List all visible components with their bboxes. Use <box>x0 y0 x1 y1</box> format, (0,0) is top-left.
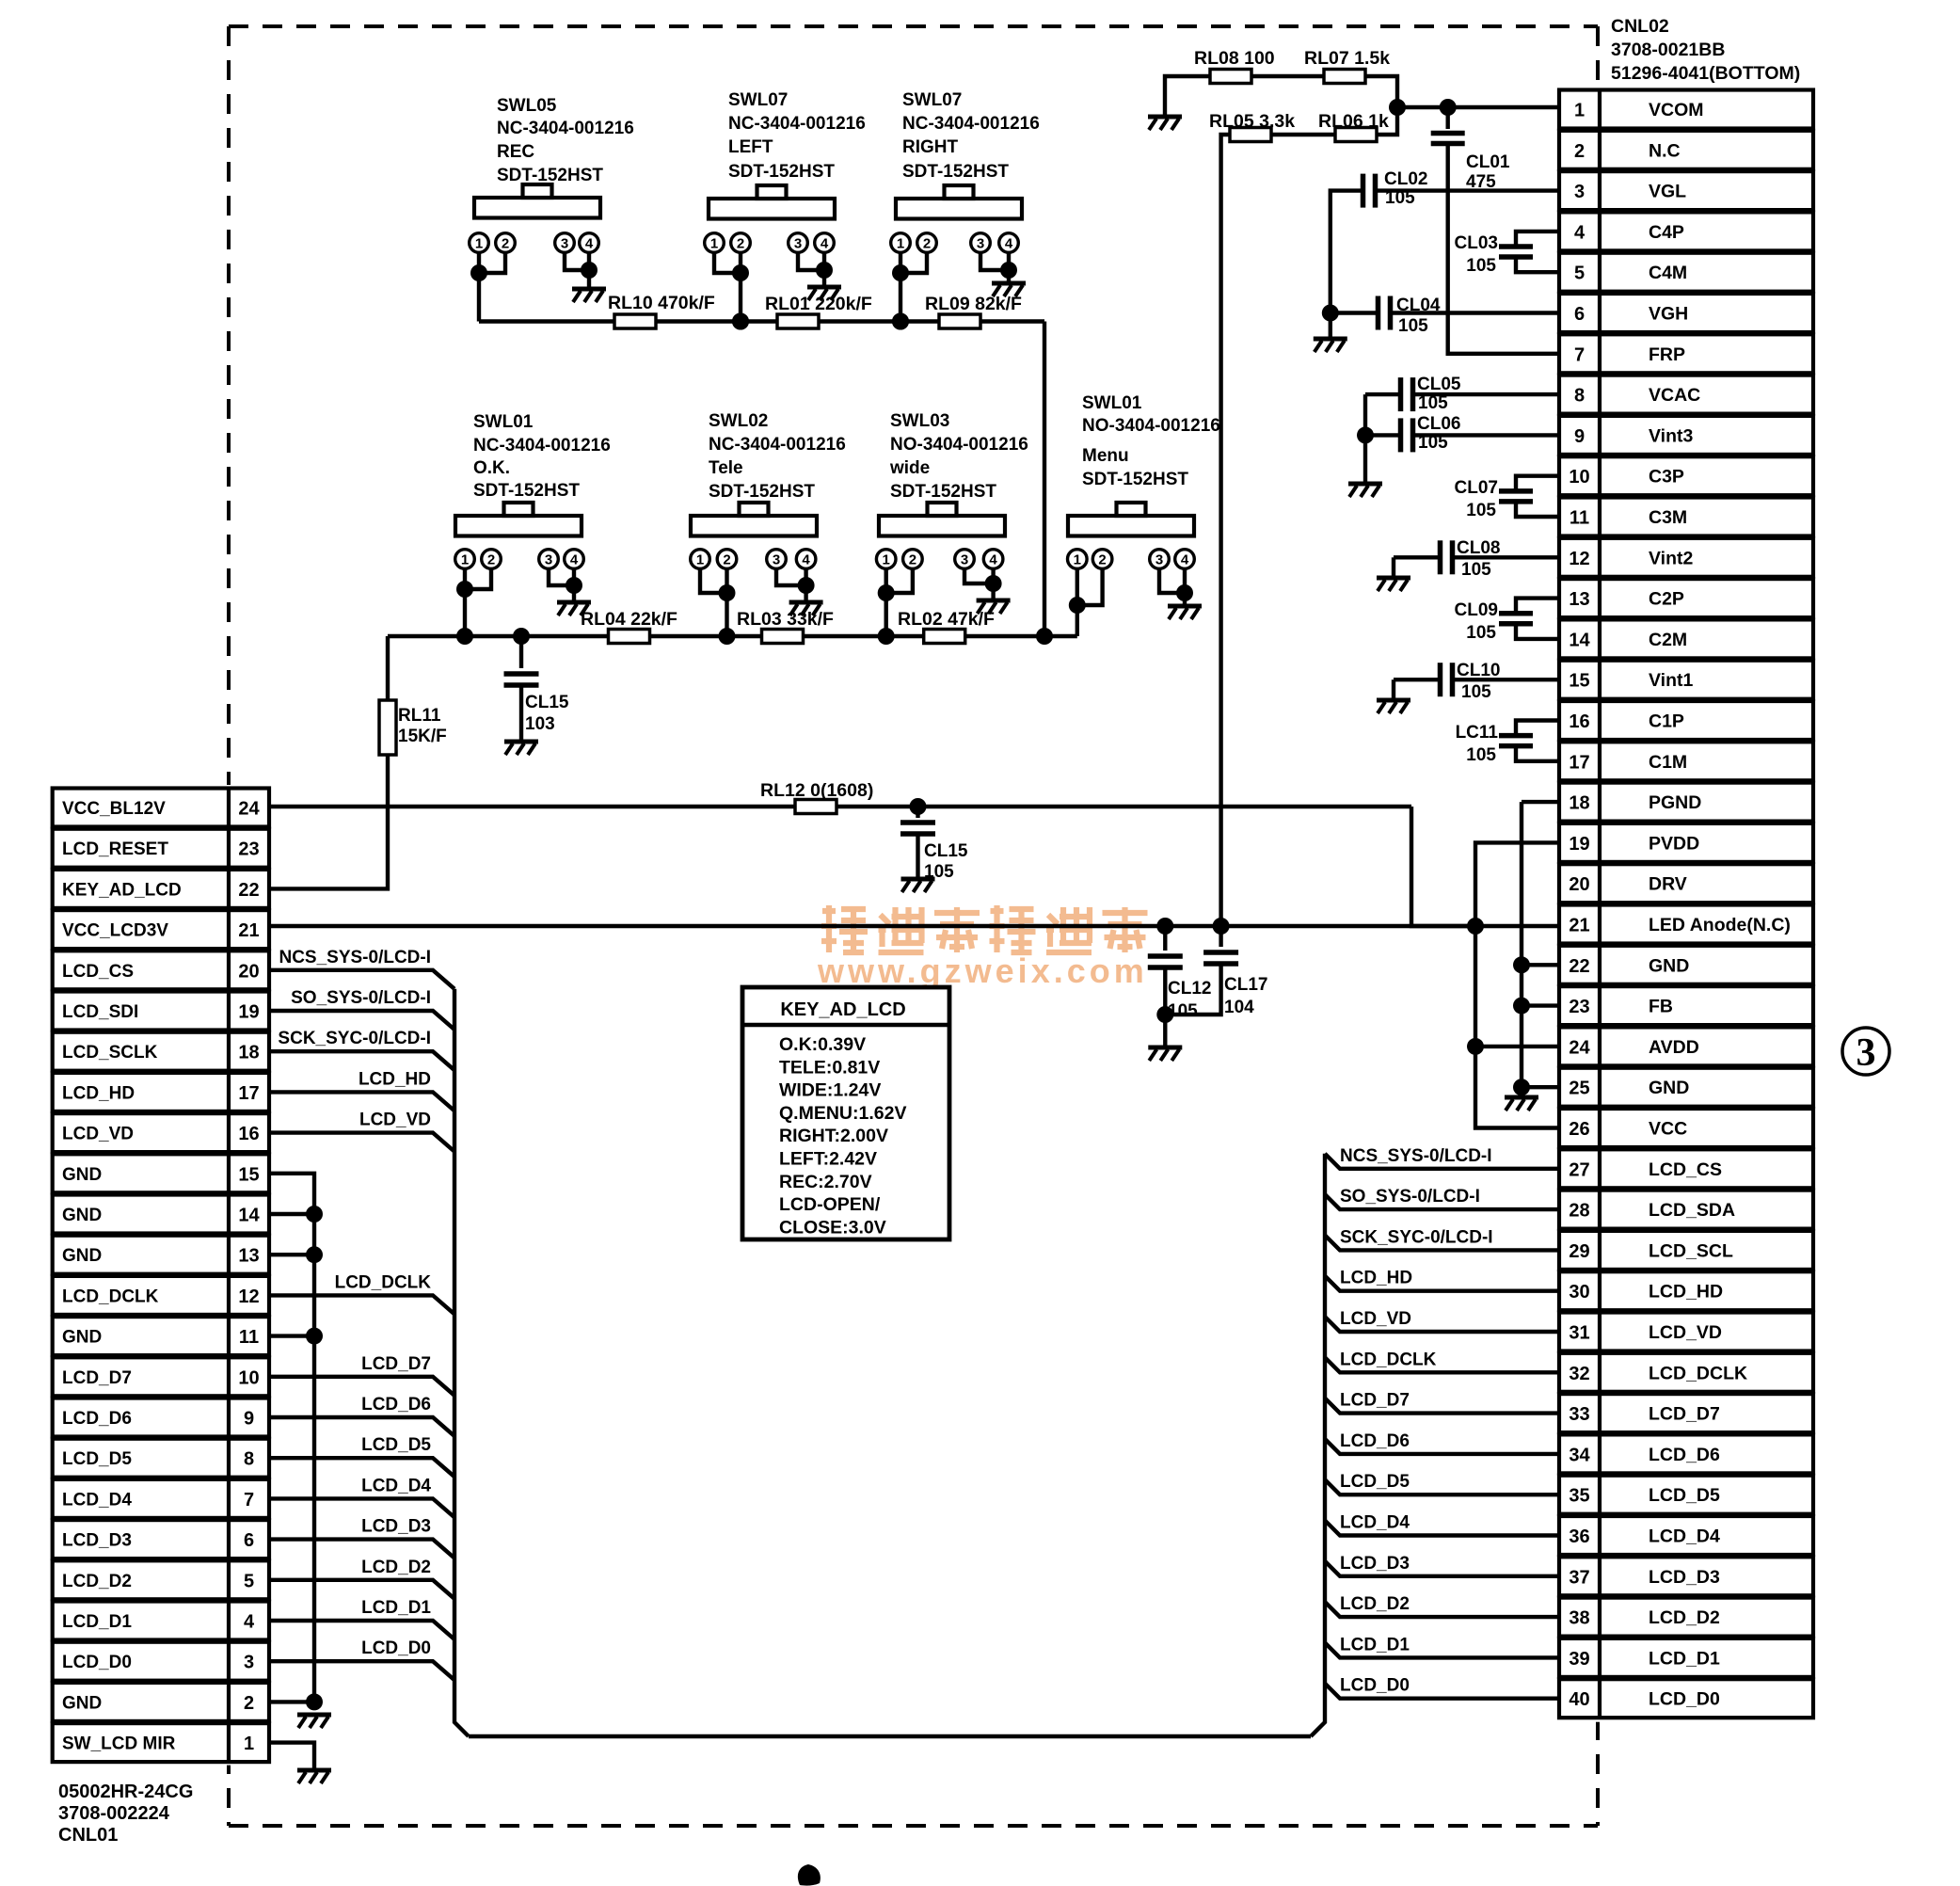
wire key bus row1 (REC/LEFT/RIGHT to RL09) <box>479 319 1044 323</box>
svg-text:LCD_D4: LCD_D4 <box>1649 1526 1720 1547</box>
CNL02 pin 24 AVDD <box>1559 1027 1813 1065</box>
ground below CL05/CL06 <box>1348 484 1382 497</box>
svg-text:LCD_HD: LCD_HD <box>359 1069 431 1089</box>
switch SWL01 O.K. pin circles 1-4 <box>455 550 584 569</box>
CNL02 pin 4 C4P <box>1559 212 1813 250</box>
CNL01 pin 6 LCD_D3 <box>53 1520 269 1558</box>
switch SWL03 wide ground <box>977 600 1011 614</box>
svg-text:O.K:0.39V: O.K:0.39V <box>779 1034 866 1055</box>
CNL02 pin 17 C1M <box>1559 742 1813 780</box>
switch SWL01 O.K. pins1/2 leads <box>465 568 491 636</box>
resistor RL09 <box>939 314 980 328</box>
wire net LCD_D2 from CNL01 pin5 <box>269 1580 454 1599</box>
svg-text:3: 3 <box>773 552 780 568</box>
svg-text:4: 4 <box>989 552 997 568</box>
wire VCOM node to CNL02 pin1 <box>1397 105 1559 109</box>
switch SWL05 REC pins1/2 leads <box>479 252 505 322</box>
svg-text:LCD_VD: LCD_VD <box>359 1111 431 1130</box>
wire GND stub pin22 <box>1522 963 1559 967</box>
capacitor CL04 <box>1378 296 1391 330</box>
svg-text:LCD_DCLK: LCD_DCLK <box>62 1287 159 1306</box>
svg-text:22: 22 <box>1569 956 1589 977</box>
resistor RL02 <box>924 630 965 644</box>
switch SWL07 RIGHT body <box>896 185 1022 219</box>
svg-text:LCD_D2: LCD_D2 <box>1649 1607 1720 1628</box>
resistor RL03 <box>762 630 804 644</box>
svg-text:9: 9 <box>244 1409 254 1430</box>
svg-text:RL10 470k/F: RL10 470k/F <box>608 293 715 313</box>
switch SWL05 REC pins3/4 leads <box>565 252 589 287</box>
CNL01 pin 21 VCC_LCD3V <box>53 910 269 949</box>
svg-text:LCD_CS: LCD_CS <box>1649 1159 1722 1180</box>
svg-text:RL05 3.3k: RL05 3.3k <box>1209 111 1295 132</box>
svg-text:SO_SYS-0/LCD-I: SO_SYS-0/LCD-I <box>1340 1187 1480 1207</box>
CNL02 pin 6 VGH <box>1559 294 1813 332</box>
svg-text:24: 24 <box>238 799 260 820</box>
switch SWL01 O.K. ground <box>557 602 591 615</box>
junction dot pin24 node on B <box>1467 1038 1484 1055</box>
CNL02 pin 30 LCD_HD <box>1559 1271 1813 1310</box>
CNL01 pin 5 LCD_D2 <box>53 1560 269 1599</box>
svg-text:NC-3404-001216: NC-3404-001216 <box>728 114 866 134</box>
switch SWL03 wide pins1/2 leads <box>886 568 913 636</box>
wire net LCD_D5 to CNL02 pin35 <box>1325 1479 1559 1494</box>
switch SWL02 Tele pin circles 1-4 <box>691 550 816 569</box>
switch SWL01 Menu pin circles 1-4 <box>1068 550 1195 569</box>
svg-text:Vint2: Vint2 <box>1649 548 1693 568</box>
svg-text:25: 25 <box>1569 1079 1589 1099</box>
svg-text:103: 103 <box>525 714 555 734</box>
wire net LCD_D5 from CNL01 pin8 <box>269 1458 454 1477</box>
svg-text:DRV: DRV <box>1649 874 1687 895</box>
svg-text:32: 32 <box>1569 1364 1589 1384</box>
svg-text:8: 8 <box>1574 386 1585 407</box>
svg-text:1: 1 <box>1574 101 1585 121</box>
svg-text:3: 3 <box>961 552 968 568</box>
junction dot pin21 node on B <box>1467 918 1484 935</box>
svg-text:KEY_AD_LCD: KEY_AD_LCD <box>62 880 182 900</box>
svg-text:LCD_D2: LCD_D2 <box>1340 1594 1410 1614</box>
wire right vertical bus <box>1311 1154 1325 1736</box>
svg-text:Vint3: Vint3 <box>1649 425 1693 446</box>
CNL02 pin 3 VGL <box>1559 171 1813 210</box>
svg-text:CL15: CL15 <box>924 841 968 861</box>
KEY_AD_LCD voltage info box <box>742 987 949 1239</box>
CNL02 pin 36 LCD_D4 <box>1559 1516 1813 1555</box>
CNL02 pin 1 VCOM <box>1559 90 1813 129</box>
svg-text:20: 20 <box>238 961 259 982</box>
junction dot CL15a on key bus <box>513 628 530 645</box>
ground below CL15 (103) <box>504 742 538 755</box>
CNL02 pin 8 VCAC <box>1559 376 1813 414</box>
svg-text:C2M: C2M <box>1649 630 1687 650</box>
CNL02 pin 35 LCD_D5 <box>1559 1476 1813 1514</box>
switch SWL05 REC ground <box>572 289 606 302</box>
switch SWL07 LEFT pins1/2 leads <box>714 252 741 322</box>
svg-text:GND: GND <box>62 1165 102 1185</box>
svg-text:27: 27 <box>1569 1159 1589 1180</box>
svg-text:LCD_DCLK: LCD_DCLK <box>1649 1363 1747 1383</box>
svg-text:Q.MENU:1.62V: Q.MENU:1.62V <box>779 1103 906 1124</box>
switch SWL07 RIGHT labels <box>902 90 1040 182</box>
switch SWL01 O.K. body <box>455 503 582 536</box>
CNL02 pin 12 Vint2 <box>1559 538 1813 577</box>
CNL02 pin 18 PGND <box>1559 783 1813 822</box>
svg-text:LCD_D5: LCD_D5 <box>1340 1472 1410 1492</box>
svg-text:C1M: C1M <box>1649 752 1687 773</box>
svg-text:4: 4 <box>802 552 810 568</box>
svg-text:CL08: CL08 <box>1457 538 1500 558</box>
svg-text:3: 3 <box>977 236 984 252</box>
CNL01 pin 18 LCD_SCLK <box>53 1032 269 1071</box>
resistor RL12 <box>795 800 837 814</box>
svg-text:30: 30 <box>1569 1282 1589 1303</box>
svg-text:LCD_D7: LCD_D7 <box>1340 1391 1410 1411</box>
svg-text:17: 17 <box>238 1083 259 1104</box>
svg-text:39: 39 <box>1569 1649 1589 1670</box>
svg-text:2: 2 <box>244 1693 254 1714</box>
svg-text:2: 2 <box>737 236 744 252</box>
switch SWL01 Menu pin1/2 junction dot <box>1069 597 1086 614</box>
CNL02 pin 28 LCD_SDA <box>1559 1191 1813 1229</box>
svg-text:2: 2 <box>923 236 931 252</box>
svg-text:SDT-152HST: SDT-152HST <box>1082 470 1188 489</box>
CNL01 pin 19 LCD_SDI <box>53 992 269 1031</box>
wire net NCS_SYS-0/LCD-I from CNL01 pin20 <box>269 970 454 989</box>
svg-text:LCD_D3: LCD_D3 <box>1340 1554 1410 1574</box>
CNL01 pin 24 VCC_BL12V <box>53 789 269 827</box>
wire net LCD_D4 to CNL02 pin36 <box>1325 1521 1559 1536</box>
svg-text:LCD_D6: LCD_D6 <box>62 1409 132 1429</box>
svg-text:1: 1 <box>883 552 890 568</box>
CNL01 pin 10 LCD_D7 <box>53 1357 269 1396</box>
svg-text:RIGHT: RIGHT <box>902 137 959 157</box>
svg-text:VGL: VGL <box>1649 182 1686 202</box>
wire RL05-RL06 <box>1271 133 1335 136</box>
wire key bus row2 (O.K./Tele/wide/Menu) <box>388 634 1077 638</box>
wire net LCD_D7 to CNL02 pin33 <box>1325 1399 1559 1414</box>
switch SWL07 LEFT pin circles 1-4 <box>705 233 835 253</box>
wire net LCD_D0 from CNL01 pin3 <box>269 1661 454 1680</box>
CNL01 pin 9 LCD_D6 <box>53 1399 269 1437</box>
svg-text:LCD_D0: LCD_D0 <box>1649 1689 1720 1710</box>
switch SWL05 REC body <box>474 184 600 218</box>
svg-text:VCC: VCC <box>1649 1119 1687 1140</box>
svg-text:105: 105 <box>1461 560 1491 580</box>
capacitor CL01 <box>1445 107 1449 129</box>
svg-text:3: 3 <box>1856 1031 1876 1075</box>
svg-text:3: 3 <box>794 236 802 252</box>
svg-text:CL05: CL05 <box>1417 375 1461 394</box>
CNL01 pin 23 LCD_RESET <box>53 829 269 868</box>
wire RL08 left lead <box>1165 76 1210 115</box>
resistor RL08 <box>1210 70 1251 84</box>
svg-text:PVDD: PVDD <box>1649 833 1699 854</box>
switch SWL05 REC labels <box>497 96 634 185</box>
svg-text:SWL01: SWL01 <box>1082 393 1142 413</box>
svg-text:SWL07: SWL07 <box>728 90 788 110</box>
CNL01 pin 14 GND <box>53 1195 269 1234</box>
CNL02 pin 20 DRV <box>1559 864 1813 903</box>
wire RL05 long vertical from VCC_LCD3V <box>1221 135 1230 926</box>
wire net LCD_D6 from CNL01 pin9 <box>269 1417 454 1436</box>
junction dot CL01 tap <box>1440 99 1457 116</box>
svg-text:4: 4 <box>570 552 579 568</box>
wire net LCD_D1 from CNL01 pin4 <box>269 1621 454 1639</box>
CNL01 pin 11 GND <box>53 1317 269 1355</box>
svg-text:C4P: C4P <box>1649 222 1684 243</box>
svg-text:RL11: RL11 <box>398 706 441 726</box>
svg-text:LCD_VD: LCD_VD <box>62 1125 134 1144</box>
switch SWL01 Menu pins1/2 leads <box>1077 568 1103 636</box>
svg-text:105: 105 <box>1466 501 1496 520</box>
svg-text:05002HR-24CG: 05002HR-24CG <box>58 1782 193 1802</box>
CNL01 pin 2 GND <box>53 1683 269 1721</box>
ground below CL15 (105) <box>901 879 935 892</box>
svg-text:VCOM: VCOM <box>1649 100 1704 120</box>
svg-text:RIGHT:2.00V: RIGHT:2.00V <box>779 1126 888 1146</box>
svg-text:4: 4 <box>585 236 594 252</box>
switch SWL02 Tele pin3/4 junction dot <box>798 577 815 594</box>
switch SWL01 Menu body <box>1068 503 1194 536</box>
svg-text:CL15: CL15 <box>525 693 569 712</box>
svg-text:33: 33 <box>1569 1404 1589 1425</box>
resistor RL05 <box>1230 128 1271 142</box>
svg-text:FRP: FRP <box>1649 344 1685 365</box>
CNL02 pin 21 LED Anode(N.C) <box>1559 905 1813 944</box>
wire GND stub pin11 <box>269 1334 314 1337</box>
capacitor CL03 (between C4P/C4M pins 4-5) <box>1499 232 1559 272</box>
switch SWL03 wide pin3/4 junction dot <box>985 575 1002 592</box>
svg-text:5: 5 <box>1574 264 1585 284</box>
wire left vertical bus <box>454 989 469 1736</box>
svg-text:LCD_D2: LCD_D2 <box>361 1558 431 1577</box>
svg-text:RL04 22k/F: RL04 22k/F <box>581 609 677 630</box>
switch SWL01 O.K. pin1/2 junction dot <box>456 581 473 598</box>
capacitor LC11 (between C1P/C1M pins 16-17) <box>1499 721 1559 761</box>
wire net LCD_VD to CNL02 pin31 <box>1325 1317 1559 1332</box>
svg-text:N.C: N.C <box>1649 140 1681 161</box>
svg-text:9: 9 <box>1574 426 1585 447</box>
wire net LCD_D1 to CNL02 pin39 <box>1325 1642 1559 1657</box>
CNL02 pin 2 N.C <box>1559 131 1813 169</box>
svg-text:RL12 0(1608): RL12 0(1608) <box>760 780 873 801</box>
svg-text:1: 1 <box>710 236 718 252</box>
svg-text:LCD_D2: LCD_D2 <box>62 1572 132 1591</box>
wire GND stub pin25 <box>1522 1085 1559 1089</box>
sheet number 3 (circled) <box>1842 1028 1889 1075</box>
wire net LCD_VD from CNL01 pin16 <box>269 1133 454 1152</box>
svg-text:TELE:0.81V: TELE:0.81V <box>779 1057 880 1078</box>
wire RL07 right lead to VCOM node <box>1365 76 1397 107</box>
CNL02 pin 11 C3M <box>1559 498 1813 536</box>
svg-text:LCD_D0: LCD_D0 <box>1340 1676 1410 1696</box>
switch SWL07 LEFT body <box>709 185 835 219</box>
switch SWL01 O.K. bus junction dot <box>456 628 473 645</box>
svg-text:LCD_D1: LCD_D1 <box>1340 1635 1410 1654</box>
svg-text:38: 38 <box>1569 1608 1589 1629</box>
switch SWL03 wide pin circles 1-4 <box>876 550 1002 569</box>
svg-text:7: 7 <box>1574 344 1585 365</box>
resistor RL06 <box>1335 128 1377 142</box>
svg-text:CL02: CL02 <box>1384 169 1427 189</box>
svg-text:23: 23 <box>238 839 259 860</box>
svg-text:10: 10 <box>1569 467 1589 487</box>
junction dot CL15b on VCC_BL12V wire <box>910 798 927 815</box>
svg-text:16: 16 <box>238 1124 259 1144</box>
svg-text:8: 8 <box>244 1449 254 1470</box>
switch SWL01 Menu ground <box>1168 606 1202 619</box>
svg-text:LCD_HD: LCD_HD <box>62 1083 135 1103</box>
svg-text:LEFT:2.42V: LEFT:2.42V <box>779 1149 877 1170</box>
junction dot bus1 RIGHT <box>892 313 909 330</box>
svg-text:CLOSE:3.0V: CLOSE:3.0V <box>779 1217 886 1238</box>
svg-text:18: 18 <box>238 1043 259 1063</box>
resistor RL04 <box>609 630 650 644</box>
CNL02 pin 39 LCD_D1 <box>1559 1638 1813 1677</box>
CNL01 pin 4 LCD_D1 <box>53 1602 269 1640</box>
svg-text:3: 3 <box>244 1653 254 1673</box>
junction dot GND pin13 <box>306 1246 323 1263</box>
wire net LCD_D4 from CNL01 pin7 <box>269 1498 454 1517</box>
svg-text:105: 105 <box>1385 188 1415 208</box>
wire net LCD_DCLK to CNL02 pin32 <box>1325 1357 1559 1372</box>
connector CNL02 title block <box>1611 16 1800 84</box>
switch SWL02 Tele bus junction dot <box>719 628 736 645</box>
svg-text:105: 105 <box>1466 256 1496 276</box>
svg-text:RL01 220k/F: RL01 220k/F <box>765 294 872 314</box>
junction dot CL12/CL17 shared ground node <box>1156 1006 1173 1023</box>
svg-text:SDT-152HST: SDT-152HST <box>473 481 580 501</box>
svg-text:35: 35 <box>1569 1486 1589 1507</box>
switch SWL01 Menu pins3/4 leads <box>1159 568 1185 604</box>
svg-text:2: 2 <box>723 552 730 568</box>
ground below CL10 <box>1377 700 1410 713</box>
svg-text:12: 12 <box>1569 549 1589 569</box>
resistor RL01 <box>777 314 819 328</box>
ground below CL02/CL04 node <box>1329 313 1332 338</box>
switch SWL05 REC pin circles 1-4 <box>470 233 599 253</box>
CNL01 pin 13 GND <box>53 1236 269 1274</box>
CNL01 pin 20 LCD_CS <box>53 951 269 989</box>
wire GND stub pin13 <box>269 1253 314 1256</box>
CNL01 pin 22 KEY_AD_LCD <box>53 870 269 908</box>
svg-text:RL06 1k: RL06 1k <box>1318 111 1389 132</box>
svg-text:LCD_D6: LCD_D6 <box>1649 1445 1720 1465</box>
svg-text:4: 4 <box>1574 222 1586 243</box>
switch SWL02 Tele pins1/2 leads <box>700 568 727 636</box>
svg-text:LCD_SDA: LCD_SDA <box>1649 1200 1735 1221</box>
svg-text:7: 7 <box>244 1490 254 1510</box>
svg-text:SDT-152HST: SDT-152HST <box>902 162 1009 182</box>
svg-text:4: 4 <box>1181 552 1189 568</box>
switch SWL07 LEFT pin1/2 junction dot <box>732 264 749 281</box>
switch SWL03 wide bus junction dot <box>878 628 895 645</box>
svg-text:36: 36 <box>1569 1526 1589 1547</box>
svg-text:28: 28 <box>1569 1201 1589 1222</box>
CNL01 pin 12 LCD_DCLK <box>53 1276 269 1315</box>
svg-text:SWL02: SWL02 <box>709 411 768 431</box>
svg-text:1: 1 <box>897 236 904 252</box>
switch SWL07 RIGHT pins1/2 leads <box>900 252 927 322</box>
svg-text:3: 3 <box>1155 552 1163 568</box>
svg-text:NC-3404-001216: NC-3404-001216 <box>709 435 846 455</box>
svg-text:SCK_SYC-0/LCD-I: SCK_SYC-0/LCD-I <box>278 1029 431 1048</box>
svg-text:REC: REC <box>497 142 534 162</box>
svg-text:15K/F: 15K/F <box>398 727 447 746</box>
junction dot CL17 node <box>1213 918 1230 935</box>
CNL01 pin 17 LCD_HD <box>53 1073 269 1111</box>
svg-text:34: 34 <box>1569 1445 1590 1465</box>
svg-text:12: 12 <box>238 1287 259 1307</box>
junction dot bus1 LEFT <box>732 313 749 330</box>
wire RL06 right lead to VCOM node <box>1377 109 1397 135</box>
svg-text:LCD_SCL: LCD_SCL <box>1649 1240 1733 1261</box>
svg-text:LCD_DCLK: LCD_DCLK <box>335 1272 432 1292</box>
wire GND stub pin14 <box>269 1212 314 1216</box>
svg-text:GND: GND <box>1649 955 1689 976</box>
svg-text:VCC_LCD3V: VCC_LCD3V <box>62 921 168 941</box>
CNL02 pin 34 LCD_D6 <box>1559 1434 1813 1473</box>
CNL02 pin 29 LCD_SCL <box>1559 1231 1813 1270</box>
svg-text:20: 20 <box>1569 874 1589 895</box>
svg-text:SWL01: SWL01 <box>473 412 534 432</box>
junction dot pin22 <box>1513 956 1530 973</box>
CNL02 pin 23 FB <box>1559 986 1813 1025</box>
CNL02 pin 16 C1P <box>1559 701 1813 740</box>
CNL02 pin 32 LCD_DCLK <box>1559 1353 1813 1392</box>
svg-text:WIDE:1.24V: WIDE:1.24V <box>779 1080 881 1101</box>
svg-text:2: 2 <box>502 236 509 252</box>
capacitor CL08 to Vint2 (pin12) <box>1394 540 1559 576</box>
svg-text:RL07 1.5k: RL07 1.5k <box>1304 48 1390 69</box>
switch SWL07 LEFT labels <box>728 90 866 182</box>
wire supply bus vertical B (PVDD/LED/AVDD/VCC) <box>1475 842 1559 1127</box>
switch SWL01 O.K. pin3/4 junction dot <box>566 577 582 594</box>
svg-text:23: 23 <box>1569 997 1589 1017</box>
CNL01 pin 1 SW_LCD MIR <box>53 1723 269 1762</box>
capacitor CL17 <box>1219 926 1222 947</box>
svg-text:1: 1 <box>475 236 483 252</box>
svg-text:3708-002224: 3708-002224 <box>58 1803 170 1824</box>
svg-text:LCD_D7: LCD_D7 <box>1649 1404 1720 1425</box>
wire SW_LCD MIR (CNL01 pin1) to ground <box>269 1743 314 1769</box>
svg-text:C3M: C3M <box>1649 507 1687 528</box>
svg-text:C2P: C2P <box>1649 589 1684 610</box>
switch SWL02 Tele body <box>691 503 817 536</box>
svg-text:3: 3 <box>561 236 568 252</box>
svg-text:105: 105 <box>1466 745 1496 765</box>
svg-text:www.gzweix.com: www.gzweix.com <box>817 951 1148 990</box>
svg-text:3708-0021BB: 3708-0021BB <box>1611 40 1725 60</box>
svg-text:LCD_RESET: LCD_RESET <box>62 839 168 859</box>
wire RL08-RL07 <box>1251 74 1324 78</box>
svg-text:LCD_D1: LCD_D1 <box>62 1612 132 1632</box>
switch SWL02 Tele pin1/2 junction dot <box>719 584 736 601</box>
svg-text:LED Anode(N.C): LED Anode(N.C) <box>1649 915 1791 935</box>
switch SWL01 Menu pin3/4 junction dot <box>1176 584 1193 601</box>
svg-text:51296-4041(BOTTOM): 51296-4041(BOTTOM) <box>1611 63 1800 84</box>
svg-text:LCD_HD: LCD_HD <box>1340 1269 1412 1288</box>
CNL02 pin 33 LCD_D7 <box>1559 1394 1813 1432</box>
CNL02 pin 14 C2M <box>1559 619 1813 658</box>
svg-text:19: 19 <box>1569 834 1589 855</box>
svg-text:CL10: CL10 <box>1457 661 1500 680</box>
svg-text:SDT-152HST: SDT-152HST <box>497 166 603 185</box>
svg-text:6: 6 <box>244 1530 254 1551</box>
junction dot CL05/CL06 <box>1357 426 1374 443</box>
capacitor CL15 (105) on VCC_BL12V wire <box>916 807 919 818</box>
